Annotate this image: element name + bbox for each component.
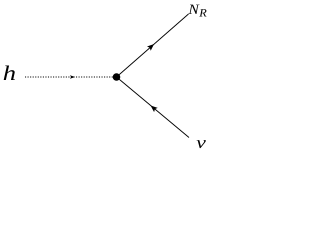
- svg-text:ν: ν: [196, 134, 207, 152]
- node: interaction vertex: [113, 73, 121, 81]
- label nu: [196, 134, 207, 152]
- arrow on nu line (pointing up-left toward vertex): [149, 103, 158, 112]
- wire: fermion line to N_R: [117, 14, 189, 77]
- wire: dotted higgs propagator h: [25, 76, 113, 78]
- arrow on dotted h line: [70, 75, 75, 79]
- arrow on N_R line (pointing up-right): [147, 42, 156, 51]
- wire: fermion line to nu: [117, 77, 190, 138]
- svg-text:h: h: [3, 62, 16, 85]
- label N_R: [187, 3, 207, 20]
- label h: [3, 62, 16, 85]
- svg-text:NR: NR: [187, 3, 207, 20]
